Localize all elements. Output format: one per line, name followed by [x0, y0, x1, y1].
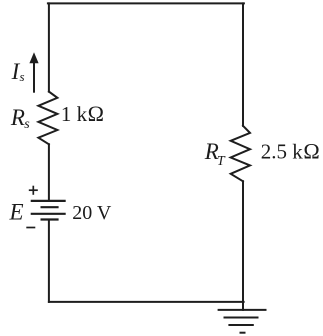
- svg-text:T: T: [217, 154, 226, 169]
- svg-text:R: R: [10, 105, 25, 130]
- wire left upper (top corner down to Rs): [48, 3, 50, 91]
- battery plate long (positive, top): [31, 200, 66, 202]
- svg-text:s: s: [20, 69, 25, 84]
- battery minus sign: [26, 227, 35, 229]
- svg-text:E: E: [9, 199, 24, 224]
- svg-text:Ω: Ω: [303, 139, 319, 164]
- ground bar 4 (shortest): [240, 332, 246, 334]
- ground bar 2: [224, 317, 259, 319]
- arrow head: [29, 52, 38, 63]
- ground bar 3: [228, 324, 253, 326]
- ground bar 1 (longest): [218, 309, 267, 311]
- wire top horizontal (node between Rs branch and RT branch): [48, 2, 244, 4]
- wire right lower (RT down to ground junction): [242, 181, 244, 310]
- svg-text:2.5 k: 2.5 k: [261, 140, 304, 164]
- battery plate short (negative, bottom): [41, 218, 59, 220]
- resistor RS: [38, 92, 57, 145]
- wire right upper (top corner down to RT): [242, 3, 244, 125]
- svg-text:Ω: Ω: [88, 101, 104, 126]
- wire left middle (Rs to battery + terminal): [48, 144, 50, 200]
- svg-text:1 k: 1 k: [61, 102, 88, 126]
- arrow shaft: [33, 62, 35, 93]
- current arrow Is (pointing up): [29, 52, 38, 92]
- wire left lower (battery - terminal to bottom corner): [48, 220, 50, 302]
- battery plus sign: [29, 186, 38, 195]
- battery plate long: [31, 213, 66, 215]
- battery plate short: [41, 206, 59, 208]
- svg-text:20 V: 20 V: [72, 202, 112, 224]
- ground: [218, 310, 267, 333]
- resistor RT: [231, 126, 250, 182]
- battery E (voltage source, two cells): [31, 201, 66, 220]
- wire bottom horizontal (return to ground node): [49, 301, 244, 303]
- svg-text:s: s: [24, 117, 30, 132]
